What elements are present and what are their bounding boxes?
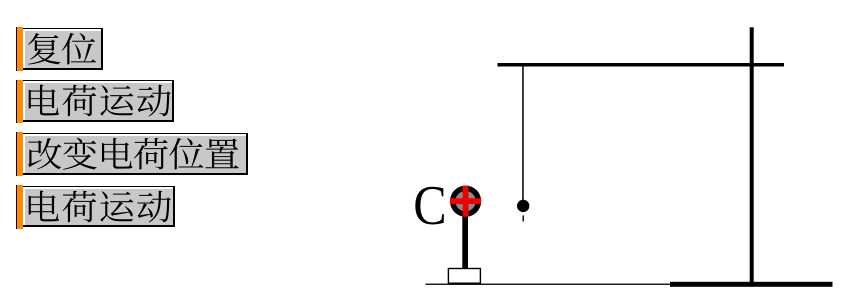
charge-motion button 电荷运动 (2) xyxy=(16,185,23,229)
charge-motion button 电荷运动 xyxy=(16,80,23,124)
charge support post xyxy=(462,210,468,269)
top horizontal bar xyxy=(498,63,785,67)
charge C: inner disc xyxy=(455,191,475,211)
stand pole xyxy=(750,27,754,282)
svg-text:C: C xyxy=(413,173,446,237)
thread tail below ball xyxy=(523,215,524,221)
change-charge-position button 改变电荷位置 xyxy=(16,132,23,177)
charge C: plus sign vertical xyxy=(463,186,469,217)
stand base (thick bar) xyxy=(670,282,833,287)
ground line xyxy=(426,284,671,285)
charge C: outer ring xyxy=(450,186,481,217)
charge support base xyxy=(448,269,480,284)
reset button 复位 xyxy=(16,27,23,71)
pendulum ball xyxy=(517,200,529,212)
label C xyxy=(413,173,446,237)
pendulum thread xyxy=(522,66,524,200)
charge C: plus sign horizontal xyxy=(450,198,481,204)
